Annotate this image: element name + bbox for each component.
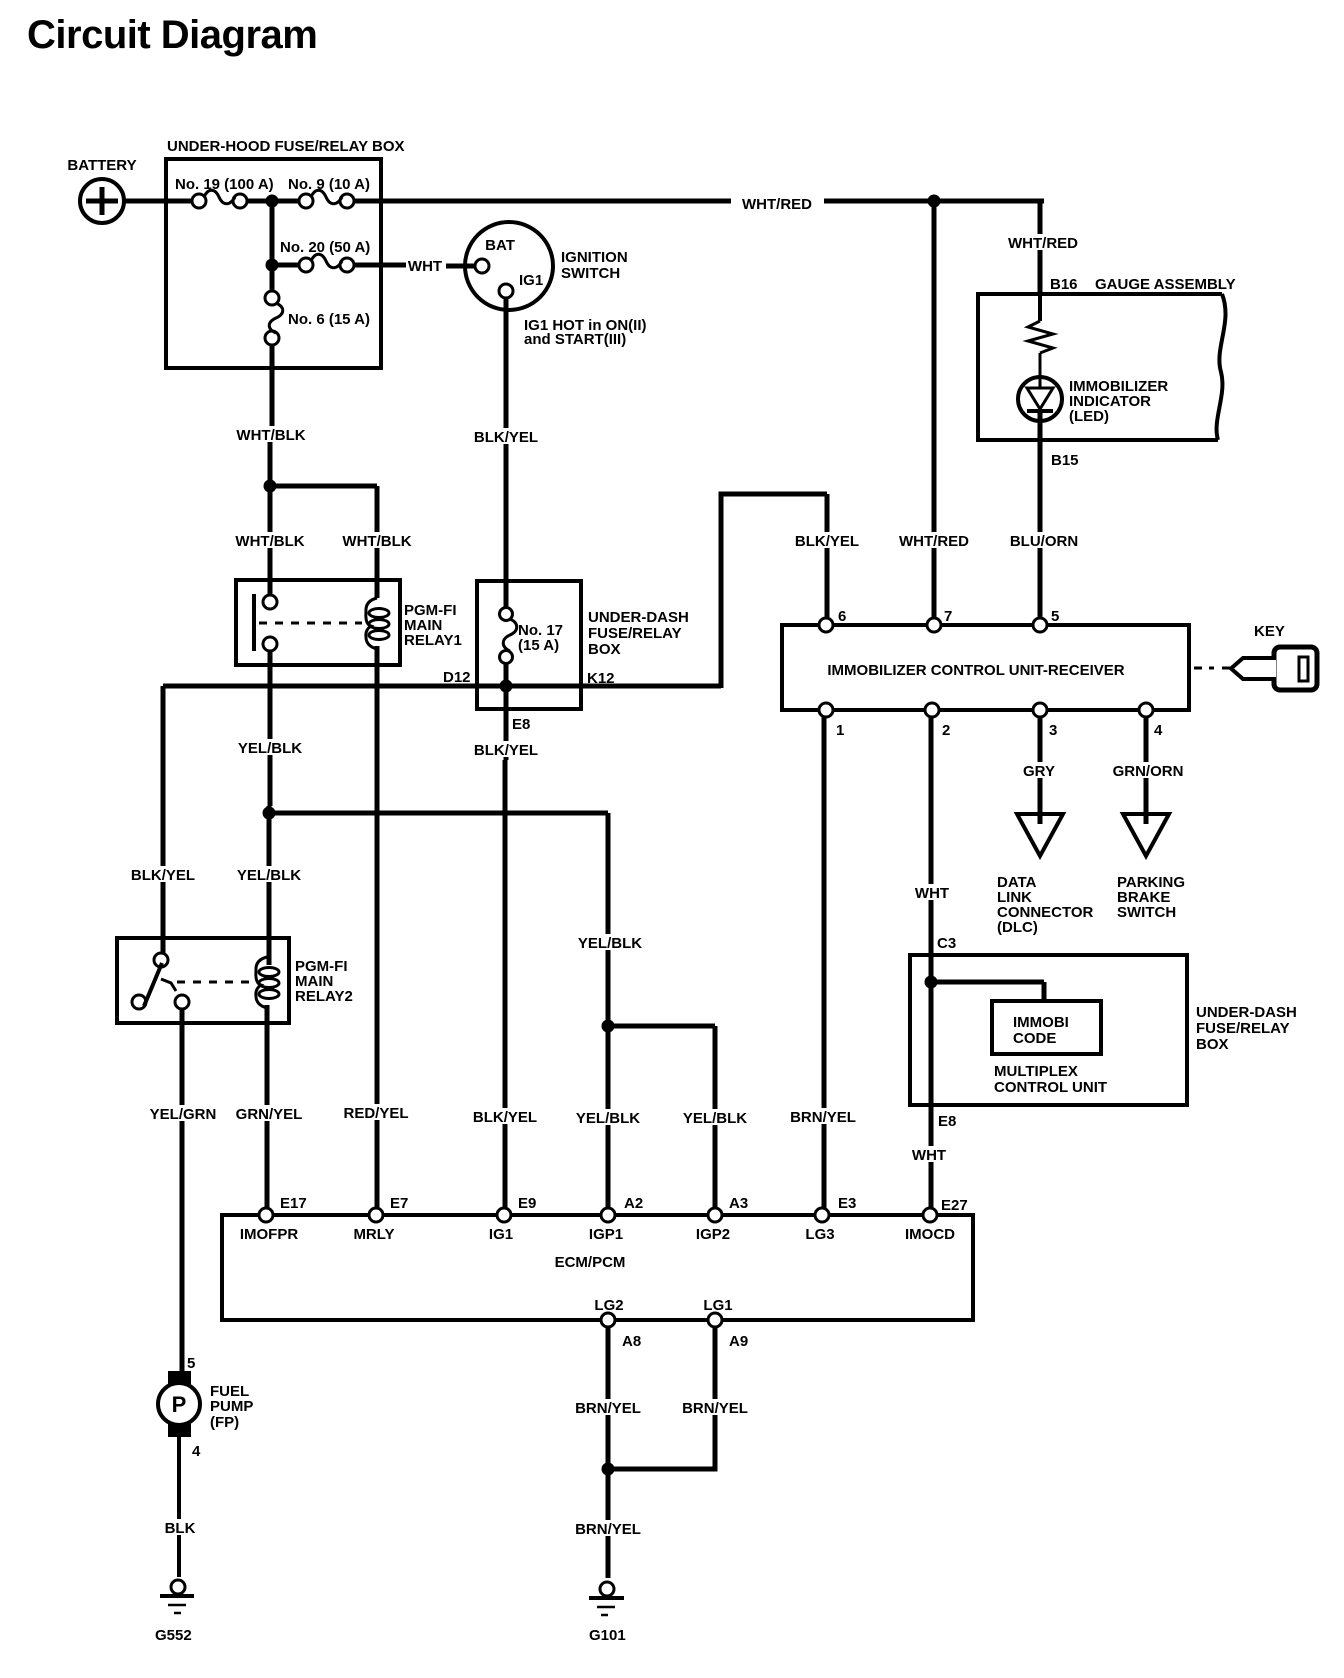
pin E7 MRLY — [353, 1195, 408, 1243]
pin 1 — [819, 703, 844, 739]
svg-text:YEL/BLK: YEL/BLK — [576, 1110, 640, 1127]
wire WHT/RED junction down to pin7 — [932, 201, 937, 621]
ground G101 — [589, 1582, 626, 1644]
fuse No.9 (10 A) — [288, 176, 370, 208]
svg-text:FUSE/RELAY: FUSE/RELAY — [588, 625, 682, 642]
label BRN/YEL LG1 — [682, 1399, 748, 1417]
label WHT/BLK left — [235, 532, 304, 550]
svg-text:UNDER-DASH: UNDER-DASH — [1196, 1004, 1297, 1021]
pin A2 IGP1 — [589, 1195, 643, 1243]
pin LG1 A9 — [703, 1297, 748, 1350]
wire branch to relay1 coil — [270, 486, 377, 598]
svg-text:MRLY: MRLY — [353, 1226, 394, 1243]
svg-text:GRN/YEL: GRN/YEL — [236, 1106, 303, 1123]
PGM-FI main relay2 — [117, 938, 353, 1023]
svg-text:No. 20 (50 A): No. 20 (50 A) — [280, 239, 370, 256]
svg-text:SWITCH: SWITCH — [561, 265, 620, 282]
svg-text:IMOCD: IMOCD — [905, 1226, 955, 1243]
svg-text:5: 5 — [1051, 608, 1059, 625]
label YEL/BLK relay1-relay2 — [237, 866, 301, 884]
data link connector arrow — [997, 814, 1094, 936]
pin E3 LG3 — [805, 1195, 856, 1243]
svg-text:E9: E9 — [518, 1195, 536, 1212]
svg-text:4: 4 — [192, 1443, 201, 1460]
svg-text:RED/YEL: RED/YEL — [343, 1105, 408, 1122]
immobilizer control unit-receiver — [782, 625, 1189, 710]
junction top row — [266, 195, 279, 208]
svg-text:WHT/BLK: WHT/BLK — [236, 427, 305, 444]
wire pin3 to DLC — [1038, 717, 1043, 824]
wire left vertical to relay2 — [161, 686, 166, 954]
svg-text:6: 6 — [838, 608, 846, 625]
label WHT pin2 — [913, 884, 951, 902]
label BLU/ORN — [1010, 532, 1078, 550]
fuse No.17 (15 A) — [500, 608, 564, 664]
svg-text:E7: E7 — [390, 1195, 408, 1212]
svg-text:and START(III): and START(III) — [524, 331, 626, 348]
svg-text:(LED): (LED) — [1069, 408, 1109, 425]
svg-text:YEL/BLK: YEL/BLK — [238, 740, 302, 757]
svg-text:GRN/ORN: GRN/ORN — [1113, 763, 1184, 780]
ignition switch — [465, 222, 647, 348]
junction fuse17 / horizontal — [500, 680, 513, 693]
svg-text:No. 9 (10 A): No. 9 (10 A) — [288, 176, 370, 193]
svg-text:Circuit Diagram: Circuit Diagram — [27, 13, 317, 57]
pin A3 IGP2 — [696, 1195, 748, 1243]
label WHT/RED vertical — [1006, 234, 1080, 252]
label BLK/YEL ignition wire — [474, 428, 538, 446]
wire relay1 left contact down — [268, 651, 273, 806]
label WHT/BLK fuse6 wire — [236, 426, 305, 444]
svg-text:GRY: GRY — [1023, 763, 1055, 780]
immobi code box — [992, 1001, 1101, 1054]
wire WHT/BLK down to relay1 junction — [268, 430, 273, 595]
svg-text:LG3: LG3 — [805, 1226, 834, 1243]
svg-text:4: 4 — [1154, 722, 1163, 739]
wire vertical in fuse box — [270, 201, 275, 292]
pin E9 IG1 — [489, 1195, 536, 1243]
fuse No.19 (100 A) — [175, 176, 274, 208]
label RED/YEL — [343, 1104, 409, 1122]
label BLK/YEL pin6 wire — [795, 532, 859, 550]
svg-text:SWITCH: SWITCH — [1117, 904, 1176, 921]
svg-text:7: 7 — [944, 608, 952, 625]
svg-text:P: P — [172, 1392, 187, 1417]
svg-text:BLK/YEL: BLK/YEL — [795, 533, 859, 550]
svg-text:IGP2: IGP2 — [696, 1226, 730, 1243]
svg-text:YEL/GRN: YEL/GRN — [150, 1106, 217, 1123]
svg-text:LG2: LG2 — [594, 1297, 623, 1314]
wire into gauge — [1038, 294, 1042, 321]
wire IG1 into fuse17 — [504, 578, 509, 609]
svg-text:IMMOBILIZER CONTROL UNIT-RECEI: IMMOBILIZER CONTROL UNIT-RECEIVER — [827, 662, 1124, 679]
svg-text:A2: A2 — [624, 1195, 643, 1212]
pin E27 IMOCD — [905, 1208, 955, 1243]
svg-text:G101: G101 — [589, 1627, 626, 1644]
svg-text:RELAY1: RELAY1 — [404, 632, 462, 649]
label BLK/YEL left vertical — [131, 866, 195, 884]
svg-text:BRN/YEL: BRN/YEL — [575, 1521, 641, 1538]
svg-text:GAUGE ASSEMBLY: GAUGE ASSEMBLY — [1095, 276, 1236, 293]
label GRY — [1020, 762, 1058, 780]
svg-text:BLK: BLK — [165, 1520, 196, 1537]
wire pin1 down to LG3 — [822, 717, 827, 1212]
label BRN/YEL LG3 — [790, 1108, 856, 1126]
svg-text:IG1: IG1 — [489, 1226, 513, 1243]
svg-text:IGNITION: IGNITION — [561, 249, 628, 266]
top wire WHT/RED — [382, 199, 1042, 204]
gauge assembly box — [978, 276, 1236, 440]
wire relay2 coil down to ECM IMOFPR — [265, 1005, 270, 1212]
multiplex control unit label — [994, 1063, 1107, 1096]
fuse No.20 (50 A) — [280, 239, 370, 272]
pin 3 — [1033, 703, 1057, 739]
label WHT/BLK right — [342, 532, 411, 550]
svg-text:UNDER-DASH: UNDER-DASH — [588, 609, 689, 626]
pin E17 IMOFPR — [240, 1195, 307, 1243]
svg-text:C3: C3 — [937, 935, 956, 952]
svg-text:BLK/YEL: BLK/YEL — [131, 867, 195, 884]
wire LG1 down and left — [608, 1327, 715, 1469]
svg-text:A9: A9 — [729, 1333, 748, 1350]
battery — [67, 157, 136, 223]
svg-text:3: 3 — [1049, 722, 1057, 739]
wire branch to IGP2 — [608, 1026, 715, 1212]
svg-text:5: 5 — [187, 1355, 195, 1372]
pin 7 — [927, 608, 952, 632]
junction row2 — [266, 259, 279, 272]
svg-text:E27: E27 — [941, 1197, 968, 1214]
wire fuse17 down — [504, 663, 509, 760]
svg-text:E8: E8 — [512, 716, 530, 733]
svg-text:BLK/YEL: BLK/YEL — [474, 742, 538, 759]
under-hood fuse/relay box — [166, 138, 405, 368]
wire row2 — [272, 263, 406, 268]
svg-text:2: 2 — [942, 722, 950, 739]
label GRN/ORN — [1110, 762, 1186, 780]
svg-text:WHT/RED: WHT/RED — [1008, 235, 1078, 252]
label YEL/GRN — [149, 1105, 217, 1123]
svg-text:BATTERY: BATTERY — [67, 157, 136, 174]
wire branch to immobi code — [931, 982, 1044, 1001]
svg-text:A8: A8 — [622, 1333, 641, 1350]
label YEL/BLK IGP1 — [576, 1109, 640, 1127]
svg-text:WHT/BLK: WHT/BLK — [342, 533, 411, 550]
svg-text:ECM/PCM: ECM/PCM — [555, 1254, 626, 1271]
svg-text:BLK/YEL: BLK/YEL — [473, 1109, 537, 1126]
wire IG1 down — [504, 298, 509, 578]
wire fuse6 down out of box — [270, 345, 275, 430]
svg-text:FUSE/RELAY: FUSE/RELAY — [1196, 1020, 1290, 1037]
wire row1 inside box — [166, 199, 382, 204]
svg-text:WHT/RED: WHT/RED — [899, 533, 969, 550]
pin 6 — [819, 608, 846, 632]
svg-text:BOX: BOX — [588, 641, 621, 658]
ground G552 — [155, 1580, 194, 1644]
label YEL/BLK mid vertical — [578, 934, 642, 952]
svg-text:WHT/RED: WHT/RED — [742, 196, 812, 213]
wire YEL/BLK to IGP1 — [606, 1022, 611, 1212]
svg-text:(FP): (FP) — [210, 1414, 239, 1431]
label YEL/BLK below relay1 — [238, 739, 302, 757]
svg-text:CONTROL UNIT: CONTROL UNIT — [994, 1079, 1107, 1096]
wire LED down out of gauge — [1038, 411, 1043, 621]
svg-text:WHT: WHT — [408, 258, 442, 275]
label WHT/RED pin7 wire — [897, 532, 971, 550]
svg-text:UNDER-HOOD FUSE/RELAY BOX: UNDER-HOOD FUSE/RELAY BOX — [167, 138, 405, 155]
wire YEL/BLK horizontal branch — [269, 813, 608, 1022]
svg-text:A3: A3 — [729, 1195, 748, 1212]
svg-text:D12: D12 — [443, 669, 471, 686]
svg-text:BAT: BAT — [485, 237, 515, 254]
pin 5 — [1033, 608, 1059, 632]
wire relay1 coil down — [375, 646, 380, 1212]
svg-text:E8: E8 — [938, 1113, 956, 1130]
wire fuel pump to ground — [177, 1437, 181, 1577]
svg-text:E3: E3 — [838, 1195, 856, 1212]
wire battery to fuse box — [124, 199, 168, 204]
key — [1231, 623, 1317, 690]
junction YEL/BLK branch — [263, 807, 276, 820]
svg-text:BLU/ORN: BLU/ORN — [1010, 533, 1078, 550]
wire LG2 down to ground — [606, 1327, 611, 1578]
key dashed link — [1194, 667, 1214, 670]
under-dash fuse/relay box lower — [910, 955, 1297, 1105]
svg-text:B15: B15 — [1051, 452, 1079, 469]
junction relay1 branch — [264, 480, 277, 493]
svg-text:BLK/YEL: BLK/YEL — [474, 429, 538, 446]
svg-text:IGP1: IGP1 — [589, 1226, 623, 1243]
svg-text:PUMP: PUMP — [210, 1398, 253, 1415]
svg-text:G552: G552 — [155, 1627, 192, 1644]
ECM/PCM box — [222, 1215, 973, 1320]
main horizontal wire D12-K12 — [163, 684, 721, 689]
svg-text:YEL/BLK: YEL/BLK — [683, 1110, 747, 1127]
svg-text:BRN/YEL: BRN/YEL — [790, 1109, 856, 1126]
label YEL/BLK IGP2 — [683, 1109, 747, 1127]
svg-text:WHT/BLK: WHT/BLK — [235, 533, 304, 550]
svg-text:KEY: KEY — [1254, 623, 1285, 640]
PGM-FI main relay1 — [236, 580, 462, 665]
wire horizontal up to immobilizer pin6 — [721, 494, 827, 688]
parking brake switch arrow — [1117, 814, 1185, 921]
svg-text:BRN/YEL: BRN/YEL — [575, 1400, 641, 1417]
wire relay1 contact to relay2 coil — [267, 806, 272, 965]
svg-text:IG1: IG1 — [519, 272, 543, 289]
svg-text:MULTIPLEX: MULTIPLEX — [994, 1063, 1078, 1080]
wire BLK/YEL fuse17 to ECM IG1 — [503, 760, 508, 1212]
wire pin4 to parking brake — [1144, 717, 1149, 824]
svg-text:WHT: WHT — [915, 885, 949, 902]
svg-text:E17: E17 — [280, 1195, 307, 1212]
svg-text:LG1: LG1 — [703, 1297, 732, 1314]
svg-text:YEL/BLK: YEL/BLK — [578, 935, 642, 952]
wire pin2 down WHT — [929, 717, 934, 1212]
label GRN/YEL — [235, 1105, 303, 1123]
label BRN/YEL ground — [575, 1520, 641, 1538]
svg-text:(DLC): (DLC) — [997, 919, 1038, 936]
junction BRN/YEL — [602, 1463, 615, 1476]
wire resistor to LED — [1039, 353, 1042, 388]
wire relay2 switch down to fuel pump — [180, 1009, 185, 1372]
fuel pump (FP) — [158, 1371, 253, 1437]
svg-text:K12: K12 — [587, 670, 615, 687]
label BLK — [161, 1519, 199, 1537]
pin 4 — [1139, 703, 1163, 739]
svg-text:CODE: CODE — [1013, 1030, 1056, 1047]
junction YEL/BLK second branch — [602, 1020, 615, 1033]
svg-text:No. 19 (100 A): No. 19 (100 A) — [175, 176, 274, 193]
svg-text:1: 1 — [836, 722, 844, 739]
svg-text:IMMOBI: IMMOBI — [1013, 1014, 1069, 1031]
resistor in gauge — [1028, 321, 1053, 353]
label WHT lower — [910, 1146, 948, 1164]
svg-text:BRN/YEL: BRN/YEL — [682, 1400, 748, 1417]
svg-text:No. 6 (15 A): No. 6 (15 A) — [288, 311, 370, 328]
label BLK/YEL to IG1 pin — [473, 1108, 537, 1126]
svg-text:YEL/BLK: YEL/BLK — [237, 867, 301, 884]
wire WHT to ignition — [446, 264, 476, 269]
svg-text:IMOFPR: IMOFPR — [240, 1226, 298, 1243]
svg-text:RELAY2: RELAY2 — [295, 988, 353, 1005]
label BRN/YEL LG2 — [575, 1399, 641, 1417]
junction node top wire — [928, 195, 941, 208]
svg-text:(15 A): (15 A) — [518, 637, 559, 654]
svg-text:BOX: BOX — [1196, 1036, 1229, 1053]
svg-text:WHT: WHT — [912, 1147, 946, 1164]
wire corner down to gauge — [1038, 199, 1043, 294]
label BLK/YEL below fuse17 — [474, 741, 538, 759]
immobilizer indicator LED — [1018, 377, 1168, 425]
pin 2 — [925, 703, 950, 739]
junction multiplex branch — [925, 976, 938, 989]
svg-text:B16: B16 — [1050, 276, 1078, 293]
fuse No.6 (15 A) vertical — [265, 291, 370, 345]
under-dash fuse/relay box No.17 — [477, 581, 689, 709]
pin LG2 A8 — [594, 1297, 641, 1350]
